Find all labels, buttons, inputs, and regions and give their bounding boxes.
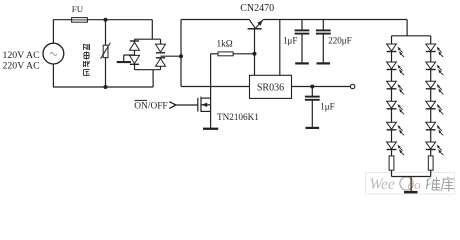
wire to resistor A xyxy=(391,150,393,156)
mosfet source stub xyxy=(201,110,211,112)
node base/1k/SR junction xyxy=(253,52,257,56)
wire AC top lead xyxy=(52,20,54,44)
wire bridge left node to ground xyxy=(124,54,135,56)
bridge bottom edge xyxy=(135,69,161,71)
wire varistor bottom lead xyxy=(105,58,107,87)
LED A4 xyxy=(387,101,397,108)
svg-text:oo: oo xyxy=(408,177,422,192)
LED B1 xyxy=(426,44,436,51)
wire top rail to transistor xyxy=(181,19,249,21)
varistor diagonal xyxy=(101,43,111,59)
svg-text:FU: FU xyxy=(72,4,84,14)
wire DC+ vertical riser xyxy=(180,20,182,87)
svg-text:1μF: 1μF xyxy=(320,102,334,112)
wire LED feed corner xyxy=(406,20,408,36)
diode D1 (top-left) xyxy=(134,39,136,42)
LED B4 xyxy=(426,101,436,108)
watermark WeeQoo box xyxy=(366,173,455,195)
wire string B drop xyxy=(430,36,432,44)
label 压敏电阻 (rotated) xyxy=(83,44,85,50)
wire resistor B bottom xyxy=(430,170,432,176)
wire bridge output to node xyxy=(161,55,182,57)
ground bar (bridge) xyxy=(117,61,131,63)
wire drain-source vertical xyxy=(210,54,212,128)
wire top rail to bridge xyxy=(53,19,152,21)
ground bar (LED strings) xyxy=(404,191,418,193)
ON/OFF input arrow xyxy=(169,102,176,109)
svg-text:CN2470: CN2470 xyxy=(240,3,274,14)
mosfet body arrow stub xyxy=(201,104,211,106)
AC source V1 circle xyxy=(43,43,64,64)
transistor CN2470 xyxy=(248,28,262,30)
diode D3 (top-right) xyxy=(160,39,162,44)
capacitor C3 1uF xyxy=(311,87,313,97)
wire top rail right xyxy=(263,19,407,21)
varistor RV rect xyxy=(103,45,108,57)
wire bottom rail xyxy=(53,86,153,88)
wire resistor A bottom xyxy=(391,170,393,176)
wire DC+ to SR036 left pin xyxy=(181,86,250,88)
wire SR036 output xyxy=(292,86,351,88)
node fuse/varistor junction xyxy=(104,18,108,22)
wire string A drop xyxy=(391,36,393,44)
SR036 box xyxy=(250,75,292,98)
ground bar (mosfet source) xyxy=(203,128,218,130)
LED B3 xyxy=(426,81,436,88)
svg-text:ON/OFF: ON/OFF xyxy=(134,102,167,112)
wire 1k left lead xyxy=(211,53,218,55)
LED A3 xyxy=(387,81,397,88)
resistor 1k body xyxy=(218,52,233,56)
wire ground drop xyxy=(410,177,412,192)
LED A1 xyxy=(387,44,397,51)
wire SR036 top-left pin xyxy=(254,54,256,76)
wire bridge top feed xyxy=(151,20,153,40)
svg-text:1kΩ: 1kΩ xyxy=(217,40,233,50)
wire bridge left mid xyxy=(134,50,136,55)
resistor RB xyxy=(428,156,433,170)
wire varistor top lead xyxy=(105,20,107,46)
svg-text:TN2106K1: TN2106K1 xyxy=(217,112,259,122)
node bridge DC+ junction xyxy=(179,54,183,58)
node output/cap junction xyxy=(310,85,314,89)
wire LED bus xyxy=(392,35,431,37)
wire SR036 top-right pin xyxy=(279,20,281,76)
watermark 维库 glyphs xyxy=(427,179,429,189)
fuse FU xyxy=(72,18,88,23)
resistor RA xyxy=(389,156,394,170)
svg-text:1μF: 1μF xyxy=(283,35,297,45)
LED A6 xyxy=(387,142,397,149)
LED B2 xyxy=(426,62,436,69)
LED B6 xyxy=(426,142,436,149)
LED B5 xyxy=(426,122,436,129)
bridge top edge xyxy=(135,38,161,40)
wire transistor base lead xyxy=(254,29,256,54)
mosfet channel bar xyxy=(200,97,202,112)
mosfet gate bar xyxy=(197,98,199,112)
svg-text:220μF: 220μF xyxy=(328,35,351,45)
svg-text:Wee: Wee xyxy=(370,176,395,193)
node varistor/bottom-rail junction xyxy=(104,85,108,89)
capacitor C1 1uF xyxy=(301,20,303,31)
mosfet drain stub xyxy=(201,97,211,99)
LED A2 xyxy=(387,62,397,69)
svg-text:220V AC: 220V AC xyxy=(3,61,40,72)
diode D4 (bottom-right) xyxy=(156,57,165,59)
wire 1k right lead xyxy=(233,53,254,55)
output terminal circle xyxy=(350,84,354,88)
diode D2 (bottom-left) xyxy=(130,55,140,63)
wire AC bottom lead xyxy=(52,64,54,87)
wire gate lead xyxy=(176,104,198,106)
wire bridge bottom feed xyxy=(152,70,154,87)
capacitor C2 220uF xyxy=(322,20,324,31)
wire string join xyxy=(392,176,431,178)
wire to resistor B xyxy=(430,150,432,156)
svg-text:120V AC: 120V AC xyxy=(3,50,40,61)
LED A5 xyxy=(387,122,397,129)
svg-text:SR036: SR036 xyxy=(257,82,284,93)
